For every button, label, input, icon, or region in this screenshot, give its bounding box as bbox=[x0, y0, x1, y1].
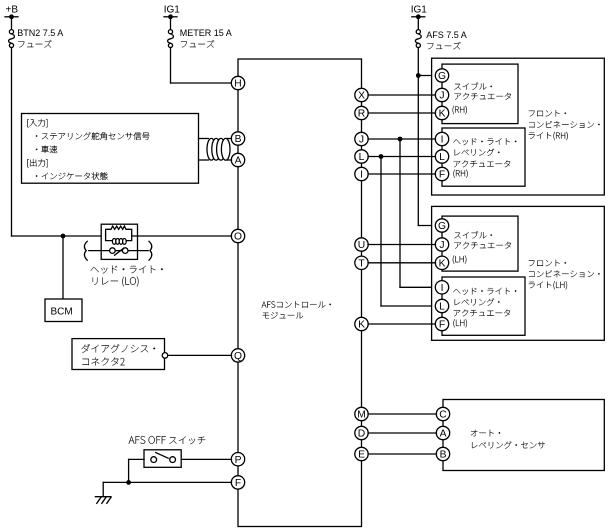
fuse METER 15A bbox=[168, 30, 172, 34]
svg-text:H: H bbox=[234, 79, 241, 90]
wire junction down to L(LH) bbox=[380, 157, 382, 307]
svg-text:AFS 7.5 A: AFS 7.5 A bbox=[426, 30, 467, 40]
svg-text:K: K bbox=[439, 109, 446, 120]
AFS control module box bbox=[238, 59, 362, 527]
wire I to F(RH) bbox=[368, 173, 436, 175]
svg-text:P: P bbox=[235, 455, 242, 466]
twisted pair to pins B/A bbox=[199, 138, 209, 140]
pin L (combination light RH) bbox=[435, 150, 448, 163]
wire +B down bbox=[11, 17, 13, 30]
svg-text:BTN2 7.5 A: BTN2 7.5 A bbox=[17, 28, 63, 38]
pin E (module right) bbox=[355, 447, 368, 460]
wire diagnosis to pin Q bbox=[168, 354, 232, 356]
pin O (module left) bbox=[231, 229, 244, 242]
label front combination light LH bbox=[529, 260, 566, 267]
label inputs/outputs bbox=[27, 119, 47, 127]
svg-text:J: J bbox=[439, 91, 444, 102]
wire switch to ground node bbox=[129, 458, 144, 460]
svg-text:B: B bbox=[440, 450, 447, 461]
front combination light RH box bbox=[432, 58, 605, 195]
pin K (module right) bbox=[355, 317, 368, 330]
BCM box bbox=[45, 299, 82, 322]
svg-text:I: I bbox=[360, 170, 363, 181]
wire T to K(LH) bbox=[368, 262, 436, 264]
svg-text:D: D bbox=[358, 429, 365, 440]
wire K to F(LH) bbox=[368, 323, 436, 325]
label front combination light RH bbox=[529, 110, 566, 117]
svg-text:T: T bbox=[358, 259, 365, 270]
pin J (module right) bbox=[355, 132, 368, 145]
ground bbox=[102, 482, 104, 496]
label leveling actuator LH bbox=[453, 288, 516, 295]
label diagnosis connector bbox=[82, 344, 156, 353]
pin L (combination light LH) bbox=[435, 299, 448, 312]
wire E to B bbox=[368, 453, 437, 455]
swivel actuator RH box bbox=[442, 64, 518, 124]
relay contact circles bbox=[110, 248, 116, 254]
relay box (head light relay LO) bbox=[101, 224, 137, 259]
wire +B to relay node bbox=[11, 48, 13, 237]
svg-text:IG1: IG1 bbox=[164, 5, 181, 16]
leveling actuator LH box bbox=[442, 277, 525, 335]
svg-text:IG1: IG1 bbox=[411, 5, 428, 16]
svg-text:K: K bbox=[439, 259, 446, 270]
svg-text:G: G bbox=[438, 71, 446, 82]
node AFS junction bbox=[416, 73, 421, 78]
svg-text:M: M bbox=[357, 410, 366, 421]
harness brace right bbox=[149, 241, 152, 260]
pin B (auto leveling sensor) bbox=[436, 447, 449, 460]
front combination light LH box bbox=[432, 206, 605, 340]
svg-text:F: F bbox=[235, 478, 241, 489]
label swivel actuator RH bbox=[454, 83, 492, 90]
diagnosis terminal circle bbox=[162, 353, 168, 359]
svg-text:E: E bbox=[358, 450, 365, 461]
svg-text:K: K bbox=[358, 320, 365, 331]
svg-text:METER 15 A: METER 15 A bbox=[180, 28, 232, 38]
svg-text:U: U bbox=[358, 240, 365, 251]
wire L to L(RH) bbox=[368, 156, 436, 158]
pin A (auto leveling sensor) bbox=[436, 426, 449, 439]
pin I (combination light RH) bbox=[435, 132, 448, 145]
label swivel actuator LH bbox=[454, 231, 492, 238]
svg-text:B: B bbox=[235, 134, 242, 145]
wire R to K(RH) bbox=[368, 112, 436, 114]
label AFS OFF switch bbox=[129, 436, 166, 444]
node junction on J-I wire bbox=[398, 137, 403, 142]
svg-text:G: G bbox=[438, 221, 446, 232]
AFS OFF switch contacts bbox=[151, 457, 157, 463]
pin R (module right) bbox=[355, 106, 368, 119]
pin F (module left) bbox=[231, 476, 244, 489]
relay coil and resistor bbox=[106, 226, 132, 235]
pin T (module right) bbox=[355, 256, 368, 269]
svg-text:L: L bbox=[439, 152, 445, 163]
wire AFS fuse down to G(LH) bbox=[417, 48, 419, 226]
svg-text:L: L bbox=[439, 302, 445, 313]
pin G (combination light LH) bbox=[435, 219, 448, 232]
pin P (module left) bbox=[231, 453, 244, 466]
pin U (module right) bbox=[355, 238, 368, 251]
wire IG1 down bbox=[170, 17, 172, 30]
pin K (combination light RH) bbox=[435, 106, 448, 119]
wire METER fuse to pin H bbox=[170, 48, 172, 84]
AFS OFF switch box bbox=[144, 450, 181, 468]
svg-text:+B: +B bbox=[6, 5, 19, 16]
diagnosis connector box bbox=[72, 339, 165, 370]
svg-text:A: A bbox=[440, 429, 447, 440]
node ground junction bbox=[126, 480, 131, 485]
label leveling actuator RH bbox=[453, 138, 516, 145]
pin K (combination light LH) bbox=[435, 256, 448, 269]
svg-text:I: I bbox=[441, 135, 444, 146]
pin J (combination light LH) bbox=[435, 238, 448, 251]
leveling actuator RH box bbox=[442, 128, 525, 186]
label AFS control module bbox=[262, 301, 331, 308]
pin L (module right) bbox=[355, 150, 368, 163]
wire junction down to I(LH) bbox=[399, 139, 401, 287]
swivel actuator LH box bbox=[442, 216, 518, 271]
node junction on L-L wire bbox=[379, 154, 384, 159]
pin I (module right) bbox=[355, 167, 368, 180]
svg-text:J: J bbox=[439, 240, 444, 251]
wire BCM drop bbox=[62, 236, 64, 299]
pin D (module right) bbox=[355, 426, 368, 439]
pin Q (module left) bbox=[231, 349, 244, 362]
svg-text:O: O bbox=[234, 232, 242, 243]
pin H (module left) bbox=[231, 76, 244, 89]
svg-text:L: L bbox=[359, 152, 365, 163]
node +B terminal bbox=[5, 16, 18, 18]
svg-text:X: X bbox=[358, 91, 365, 102]
label head light relay bbox=[91, 266, 163, 274]
pin G (combination light RH) bbox=[435, 69, 448, 82]
pin A (module left) bbox=[231, 153, 244, 166]
wire D to A bbox=[368, 432, 437, 434]
pin J (combination light RH) bbox=[435, 88, 448, 101]
wire ground junction to pin F bbox=[103, 481, 231, 483]
harness brace left bbox=[84, 241, 87, 260]
pin F (combination light RH) bbox=[435, 167, 448, 180]
wire J to I(RH) bbox=[368, 138, 436, 140]
svg-text:BCM: BCM bbox=[51, 307, 73, 318]
svg-text:I: I bbox=[441, 283, 444, 294]
node IG1 terminal (METER) bbox=[164, 16, 177, 18]
node IG1 terminal (AFS) bbox=[412, 16, 425, 18]
wire relay to pin O bbox=[132, 235, 232, 237]
svg-text:F: F bbox=[439, 320, 445, 331]
pin F (combination light LH) bbox=[435, 317, 448, 330]
svg-text:A: A bbox=[235, 156, 242, 167]
wire X to J(RH) bbox=[368, 94, 436, 96]
pin B (module left) bbox=[231, 132, 244, 145]
wire junction to G(RH) bbox=[418, 75, 435, 77]
pin C (auto leveling sensor) bbox=[436, 407, 449, 420]
svg-text:C: C bbox=[439, 410, 447, 421]
svg-text:Q: Q bbox=[234, 351, 242, 362]
svg-text:J: J bbox=[359, 135, 364, 146]
pin M (module right) bbox=[355, 407, 368, 420]
svg-text:R: R bbox=[358, 109, 365, 120]
fuse BTN2 7.5A bbox=[9, 30, 13, 34]
wire IG1 down 2 bbox=[417, 17, 419, 30]
info box inputs/outputs bbox=[22, 114, 199, 184]
wire M to C bbox=[368, 413, 437, 415]
label auto leveling sensor bbox=[471, 430, 500, 437]
wire switch to pin P bbox=[181, 458, 231, 460]
svg-text:F: F bbox=[439, 170, 445, 181]
auto leveling sensor box bbox=[443, 400, 604, 471]
node BCM junction bbox=[61, 234, 66, 239]
relay switch contacts bbox=[89, 250, 148, 252]
wire U to J(LH) bbox=[368, 244, 436, 246]
pin X (module right) bbox=[355, 88, 368, 101]
fuse AFS 7.5A bbox=[416, 30, 420, 34]
pin I (combination light LH) bbox=[435, 281, 448, 294]
